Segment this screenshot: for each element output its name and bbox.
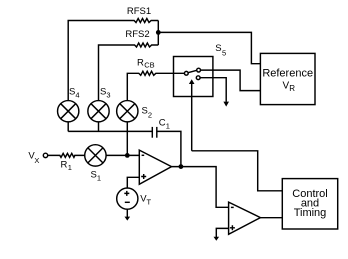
svg-text:R: R [289, 84, 295, 93]
svg-text:1: 1 [68, 163, 72, 172]
svg-text:Reference: Reference [262, 68, 313, 80]
svg-text:R: R [61, 159, 68, 170]
svg-text:4: 4 [75, 90, 79, 99]
svg-text:1: 1 [97, 174, 101, 183]
svg-text:Timing: Timing [294, 207, 327, 219]
svg-text:T: T [147, 198, 152, 207]
svg-text:3: 3 [106, 90, 110, 99]
svg-text:S: S [142, 106, 148, 117]
svg-text:X: X [34, 156, 39, 165]
svg-text:S: S [215, 43, 221, 54]
svg-text:2: 2 [148, 110, 152, 119]
svg-text:S: S [100, 86, 106, 97]
svg-text:R: R [137, 57, 144, 68]
svg-text:C: C [159, 118, 166, 129]
svg-text:1: 1 [166, 121, 170, 130]
svg-text:RFS1: RFS1 [127, 6, 151, 17]
svg-text:S: S [69, 86, 75, 97]
svg-text:RFS2: RFS2 [125, 29, 149, 40]
svg-text:5: 5 [222, 49, 226, 58]
svg-text:S: S [91, 170, 97, 181]
svg-text:CB: CB [144, 61, 154, 70]
